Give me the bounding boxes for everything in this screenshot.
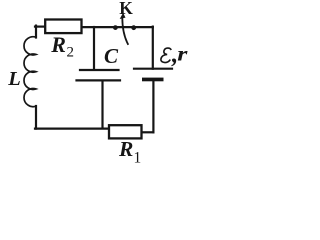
- svg-text:1: 1: [134, 150, 142, 166]
- wire right branch upper (top corner to battery): [152, 27, 154, 69]
- switch K lever arrowhead: [120, 13, 126, 19]
- battery short thick plate (-): [142, 78, 164, 82]
- wire right branch lower (battery to R1): [152, 81, 154, 132]
- wire top middle (R2 right to top-right corner): [82, 26, 153, 28]
- svg-text:C: C: [104, 44, 119, 68]
- svg-text:K: K: [119, 0, 133, 18]
- wire bottom (left corner to R1): [35, 128, 109, 130]
- wire capacitor branch lower: [101, 81, 103, 128]
- wire top-left horizontal: [35, 26, 46, 28]
- inductor L coil: [24, 37, 36, 107]
- capacitor C top plate: [80, 69, 119, 71]
- resistor R2: [45, 20, 81, 34]
- svg-text:R: R: [118, 137, 133, 161]
- wire R1 right to battery branch: [142, 131, 154, 133]
- svg-text:L: L: [7, 68, 21, 90]
- svg-text:R: R: [50, 32, 66, 57]
- battery long plate (+): [134, 68, 172, 70]
- svg-text:r: r: [177, 43, 188, 65]
- svg-text:2: 2: [67, 44, 75, 60]
- wire capacitor branch upper: [93, 27, 95, 69]
- wire left branch top stub: [35, 26, 37, 38]
- capacitor C bottom plate: [77, 79, 121, 81]
- resistor R1: [109, 125, 142, 138]
- switch K right contact dot: [131, 25, 136, 30]
- label EMF script E: [161, 48, 171, 62]
- switch K left contact dot: [113, 25, 118, 30]
- switch K lever: [122, 18, 128, 45]
- wire left branch bottom stub: [35, 106, 37, 129]
